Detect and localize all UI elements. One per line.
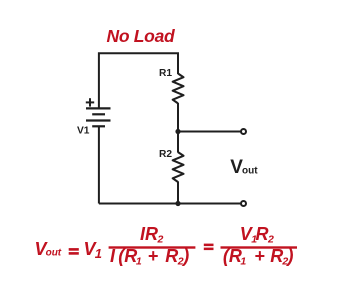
formula fraction 1 denominator I (R1 + R2) [110, 246, 189, 268]
svg-text:out: out [46, 248, 62, 259]
formula fraction 2 bar [221, 246, 298, 248]
svg-text:(R: (R [118, 246, 137, 266]
svg-text:1: 1 [136, 256, 142, 268]
svg-text:1: 1 [95, 246, 102, 261]
formula Vout = V1 [35, 239, 103, 261]
battery V1 [86, 108, 111, 126]
formula fraction 1 numerator IR2 [140, 224, 164, 246]
formula fraction 2 denominator (R1 + R2) [223, 246, 294, 268]
formula fraction 1 bar [109, 246, 196, 248]
formula equals 2 [204, 244, 214, 251]
svg-text:IR: IR [140, 224, 158, 244]
wire node A to upper terminal [178, 131, 241, 133]
svg-text:2: 2 [267, 234, 274, 246]
resistor R2 [173, 152, 184, 182]
svg-text:): ) [181, 246, 189, 266]
svg-text:R: R [256, 224, 269, 244]
label Vout [230, 157, 258, 178]
svg-text:out: out [242, 166, 258, 177]
svg-text:R2: R2 [159, 149, 172, 160]
wire top (battery + up, across top, down to R1) [99, 53, 178, 109]
wire R2 bottom to node B [177, 182, 179, 204]
resistor R1 [173, 74, 184, 104]
svg-text:V1: V1 [77, 125, 90, 136]
wire bottom (to lower terminal) [99, 203, 241, 205]
wire R1 bottom to node A [177, 103, 179, 132]
battery polarity plus [86, 98, 94, 106]
node A junction dot [175, 129, 180, 134]
svg-text:): ) [286, 246, 294, 266]
terminal upper output [241, 129, 246, 134]
wire left bottom (battery - down to bottom-left corner) [98, 126, 100, 203]
svg-text:+: + [254, 246, 265, 266]
node B junction dot [175, 201, 180, 206]
svg-text:R: R [270, 246, 283, 266]
terminal lower output [241, 201, 246, 206]
svg-text:(R: (R [223, 246, 242, 266]
wire node A to R2 top [177, 132, 179, 153]
svg-text:R1: R1 [159, 68, 172, 79]
svg-text:1: 1 [240, 256, 246, 268]
svg-text:No Load: No Load [107, 26, 176, 46]
formula fraction 2 numerator V1R2 [240, 224, 274, 246]
svg-text:2: 2 [157, 234, 164, 246]
svg-text:R: R [165, 246, 178, 266]
svg-text:+: + [148, 246, 159, 266]
